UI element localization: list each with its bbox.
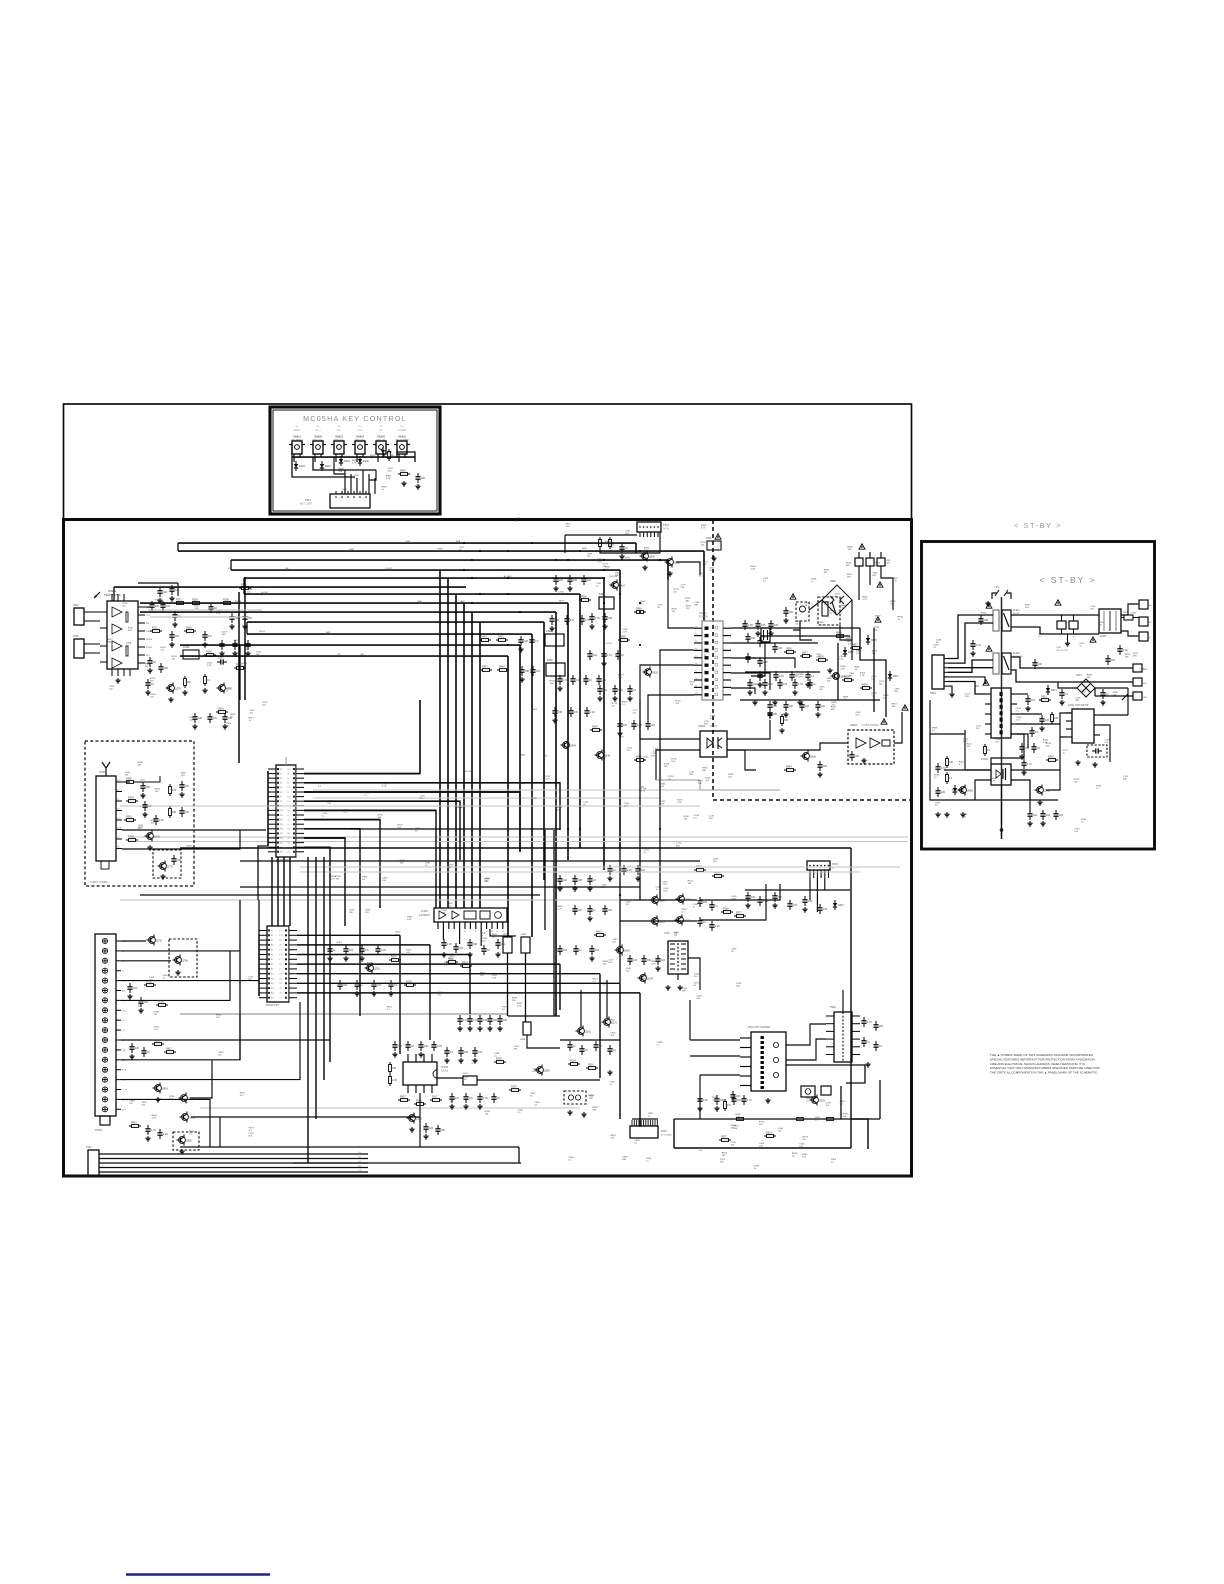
ground [1094,762,1096,764]
svg-text:100: 100 [144,1001,149,1004]
wire tc bus [600,549,660,553]
SIF module M202 [546,663,565,676]
svg-text:10K: 10K [222,634,226,636]
resistor R275 [190,602,193,604]
wire switch drop [398,457,400,462]
ground [177,970,179,972]
svg-text:103: 103 [825,1105,829,1107]
svg-text:10K: 10K [484,881,488,883]
svg-text:33K: 33K [349,912,353,914]
ground [345,956,347,958]
ground [770,631,772,633]
svg-text:GND: GND [417,601,422,603]
resistor R266 [509,1089,512,1091]
tuner IC TU801 [96,776,116,861]
warning mark [1090,637,1096,642]
capacitor C303 [819,904,821,908]
svg-text:C392: C392 [1056,647,1062,649]
tuner pin 5 [116,819,122,821]
feedback resistor bars [126,612,128,622]
wire fb v2 [677,974,679,980]
svg-text:220: 220 [177,859,182,862]
svg-text:1K: 1K [370,458,373,460]
svg-text:10K: 10K [848,549,852,551]
svg-text:P3: P3 [280,778,282,780]
diode D305 [834,900,836,903]
pin stub right 2 [138,622,145,624]
resistor R291 [221,602,224,604]
svg-text:103: 103 [774,624,779,627]
ground [117,678,119,680]
svg-text:2.2K: 2.2K [965,696,970,698]
svg-text:100: 100 [1033,814,1038,817]
strip B pin 1 [259,930,267,932]
focus block box2 [821,1086,831,1095]
svg-text:0.1: 0.1 [518,1112,522,1114]
svg-text:Q161: Q161 [585,1031,592,1034]
IC301 pin 4 [453,922,455,929]
connector P402 bottom left [88,1150,99,1176]
capacitor C251 [699,917,701,921]
transistor Q166 [604,1019,611,1026]
capacitor C956 [489,1015,491,1019]
transistor Q745 [149,937,156,944]
pin stub bottom 1 [117,669,119,676]
ground [479,1026,481,1028]
svg-text:P6: P6 [695,663,697,665]
svg-text:2.2K: 2.2K [662,884,667,886]
svg-text:BLU: BLU [1143,683,1148,685]
transistor Q618 [645,669,652,676]
ground [609,1070,611,1072]
ground [129,994,131,996]
svg-text:1u: 1u [603,985,606,987]
wire t801 secondary1 [1017,693,1028,695]
svg-text:4.7K: 4.7K [585,619,590,622]
svg-text:10K: 10K [819,689,823,691]
tuner pin 8 [116,848,122,850]
svg-text:LA78040: LA78040 [419,913,430,917]
P404 pin 4 [640,1120,642,1126]
wire gray rail 6 [180,1013,508,1015]
wire amp top rail drop [113,587,115,601]
svg-text:102: 102 [1031,699,1036,702]
wire PL801 net h [121,1002,300,1080]
svg-text:102: 102 [1139,671,1143,673]
wire opto left2 [656,750,700,780]
resistor R426 [1051,712,1053,715]
bridge rectifier D810 [822,585,852,615]
warning mark [983,680,989,685]
PL801 pin 9 [102,1018,107,1023]
svg-text:10K: 10K [952,792,956,794]
capacitor C940 [459,1015,461,1019]
svg-text:GND: GND [349,549,354,551]
svg-text:10K: 10K [773,705,778,708]
wire bus v x480 [479,622,481,908]
ground [144,812,146,814]
wire stripA left bus [267,771,269,846]
wire bottom h5 [220,1116,420,1118]
transistor Q813 [155,1085,162,1092]
capacitor C339 [149,657,151,661]
svg-text:1K: 1K [593,879,596,882]
wire PL801 net a [121,940,146,942]
svg-text:47u: 47u [218,1054,222,1056]
svg-text:0.1: 0.1 [634,1143,638,1145]
svg-text:0.1: 0.1 [1039,636,1043,638]
svg-text:1u: 1u [867,1041,870,1044]
ground [785,712,787,714]
svg-text:Q654: Q654 [570,745,577,748]
resistor R271 [404,984,407,986]
resistor R418 [479,639,482,641]
capacitor C880 [159,1129,161,1133]
resistor R213 [586,1067,589,1069]
svg-text:8: 8 [475,931,476,933]
capacitor C936 [1042,810,1044,814]
svg-text:R678: R678 [128,796,134,799]
capacitor C354 [623,865,625,869]
IC301 pin 13 [502,922,504,929]
capacitor C434 [1031,727,1033,731]
svg-text:10K: 10K [703,901,708,904]
ground [679,985,681,987]
resistor R805 [152,1043,155,1045]
svg-text:R932: R932 [521,934,527,936]
ground [621,554,623,556]
capacitor C981 [433,1041,435,1045]
ground [554,718,556,720]
ground [583,1112,585,1114]
wire ladder mid [313,457,376,470]
svg-text:220: 220 [1111,659,1116,662]
svg-text:SDA: SDA [456,540,461,543]
capacitor C226 [451,1093,453,1097]
ground [629,696,631,698]
capacitor C475 [555,575,557,579]
capacitor C406 [1061,689,1063,693]
wire tuner out1 [122,781,130,783]
svg-text:10K: 10K [140,782,144,784]
strip A pin 7 [268,796,276,798]
wire ic801 r1 [1100,714,1128,716]
capacitor C511 [598,675,600,679]
capacitor C571 [769,701,771,705]
connector CN851 [1139,600,1148,609]
svg-text:102: 102 [587,579,592,582]
ground [657,966,659,968]
svg-text:220: 220 [279,964,282,966]
resistor R349 [204,654,207,656]
P404 pin 2 [636,1120,638,1126]
svg-text:B1: B1 [271,930,273,932]
svg-text:100: 100 [279,998,282,1000]
svg-text:102: 102 [713,861,717,863]
resistor R724 [126,839,129,841]
svg-text:102: 102 [279,993,282,995]
svg-text:R298: R298 [223,598,229,601]
PL801 pin 15 [102,1077,107,1082]
svg-text:< ST-BY >: < ST-BY > [1039,575,1096,585]
resistor R689 [124,819,127,821]
svg-text:1K: 1K [151,683,154,686]
wire switch drop [377,457,379,462]
ground [637,876,639,878]
svg-text:2.2K: 2.2K [751,569,756,571]
svg-text:5V: 5V [338,426,341,428]
svg-text:220: 220 [627,750,631,752]
capacitor C483 [699,1095,701,1099]
svg-text:33K: 33K [949,761,954,764]
transistor Q629 [597,752,604,759]
ground [759,682,761,684]
diode D594 [844,647,846,650]
svg-text:Q819: Q819 [162,1088,169,1091]
wire cr net1 [580,990,582,1027]
svg-text:R270: R270 [391,955,397,958]
wire bus h y645 [180,644,520,646]
ground [474,1058,476,1060]
svg-text:1K: 1K [612,705,615,707]
capacitor C171 [569,1041,571,1045]
svg-text:100: 100 [163,591,168,594]
ground [804,907,806,909]
wire bus h y578 [244,577,604,579]
capacitor C652 [819,761,821,765]
svg-text:R589: R589 [620,635,626,638]
capacitor C964 [499,1015,501,1019]
svg-text:10K: 10K [550,683,554,685]
wire p902 top [842,990,844,1012]
svg-text:4.7K: 4.7K [279,954,283,956]
ground [1039,800,1041,802]
strip B pin 8 [259,963,267,965]
wire long v x324 [323,857,325,1080]
resistor R444 [946,772,948,775]
wire left v8 [258,900,260,934]
wire bus h y551 [178,550,704,552]
resistor R413 [594,934,597,936]
svg-text:AC: AC [1149,604,1152,607]
svg-text:103: 103 [823,908,828,911]
resistor R307 [150,630,153,632]
T801 left pin 3 [985,723,991,725]
wire loop bottom [674,1147,851,1149]
ground [774,903,776,905]
wire bus left col [246,622,248,634]
capacitor C223 [460,1047,462,1051]
capacitor C225 [345,945,347,949]
ground [829,668,831,670]
switch mark [1122,694,1128,700]
wire strip A long net2 [304,783,560,830]
wire ladder right [397,452,415,462]
svg-text:102: 102 [879,684,883,686]
wire strip B net y935 [297,934,400,936]
svg-text:AFC: AFC [461,600,466,603]
svg-text:1K: 1K [585,1049,588,1052]
capacitor C180 [581,1045,583,1049]
wire sb extra5 [929,700,931,760]
svg-text:10K: 10K [407,919,411,921]
svg-text:B10: B10 [271,974,274,976]
ground [181,792,183,794]
wire tc bus2 [659,532,661,553]
capacitor C966 [231,613,233,617]
svg-text:103: 103 [841,608,845,610]
resistor R305 [984,744,986,747]
svg-text:Q752: Q752 [156,940,163,943]
svg-text:2.2K: 2.2K [677,802,682,804]
IC302 bottom pin 3 [431,1085,433,1093]
svg-text:33K: 33K [279,940,283,942]
ground [817,712,819,714]
svg-text:220: 220 [343,984,348,987]
svg-text:Q766: Q766 [182,960,189,963]
capacitor C964 [1119,645,1121,649]
svg-text:D403: D403 [1076,675,1082,677]
tuner antenna mark [102,762,106,776]
svg-text:33K: 33K [846,565,850,567]
wire bridge left [1058,682,1077,688]
wire bottom bus [674,1118,880,1120]
svg-text:220: 220 [1054,717,1059,720]
IC302 bottom pin 1 [415,1085,417,1093]
svg-text:47u: 47u [226,725,230,727]
wire stby ic right [894,712,902,743]
T801 right pin 4 [1011,733,1017,735]
svg-text:100: 100 [1087,677,1091,679]
wire ta r3 [731,658,795,668]
connector PL801 main input [95,934,116,1116]
ground [234,651,236,653]
svg-text:10K: 10K [684,819,688,821]
pin stub top 0 [111,594,113,601]
IC801 right pin 0 [1094,714,1100,716]
resistor R510 [764,1135,767,1137]
capacitor C896 [483,945,485,949]
wire v out2 [525,953,527,1022]
bridge rectifier D851 [1077,679,1095,697]
ground [411,1127,413,1129]
connector CN803 sq3 [877,558,885,566]
svg-text:1u: 1u [898,619,901,621]
ground [699,1106,701,1108]
capacitor C255 [390,980,392,984]
IC301 pin 5 [459,922,461,929]
svg-text:1u: 1u [333,949,336,952]
svg-text:103: 103 [251,644,256,647]
P802 pin 5 [944,676,948,678]
wire dip out2 [477,1079,600,1081]
svg-text:100: 100 [1016,719,1020,721]
svg-text:R519: R519 [766,1131,772,1134]
wire p802 net3 [948,667,993,669]
svg-text:103: 103 [661,959,666,962]
capacitor C548 [614,685,616,689]
wire crt right1 [786,1065,865,1083]
capacitor C615 [851,751,853,755]
ground [497,952,499,954]
svg-text:0.1: 0.1 [807,1101,811,1103]
strip A pin 2 [268,773,276,775]
svg-text:1K: 1K [935,805,938,807]
capacitor C565 [809,679,811,683]
capacitor C555 [619,720,621,724]
X-capacitor CX801 [1057,621,1066,629]
capacitor C579 [785,701,787,705]
wire bridge down [1127,688,1129,698]
ground [140,1008,142,1010]
svg-text:1u: 1u [657,1044,660,1046]
svg-text:MC05HA KEY CONTROL: MC05HA KEY CONTROL [303,414,407,423]
svg-text:1u: 1u [704,654,707,656]
pin stub bottom 2 [123,669,125,676]
wire strip B drop2 [429,945,431,1040]
svg-text:0.1: 0.1 [811,675,815,678]
capacitor C218 [159,587,161,591]
svg-text:47u: 47u [208,635,213,638]
svg-text:2.2K: 2.2K [991,781,996,783]
P802 pin 2 [944,662,948,664]
wire tr h4 [793,621,800,630]
resistor R262 [721,911,724,913]
svg-text:4.7K: 4.7K [862,599,867,601]
resistor R441 [497,669,500,671]
capacitor C218 [329,945,331,949]
svg-text:9V: 9V [122,1020,125,1022]
capacitor C291 [774,892,776,896]
svg-text:Q291: Q291 [374,968,381,971]
svg-text:33K: 33K [473,943,478,946]
svg-text:10K: 10K [603,964,607,966]
wire bus v x704 [703,551,705,621]
svg-text:220: 220 [941,791,946,794]
capacitor C358 [217,661,221,663]
wire long v x308 [307,857,309,1163]
svg-text:33K: 33K [146,786,151,789]
ground [469,952,471,954]
wire bus left drop2 [230,560,232,570]
svg-text:103: 103 [675,703,679,705]
warning mark [986,646,992,651]
svg-text:220: 220 [421,477,426,480]
svg-text:10K: 10K [248,1136,252,1138]
T801 right pin 2 [1011,713,1017,715]
capacitor C552 [629,685,631,689]
resistor R949 [1039,699,1042,701]
svg-text:0.1: 0.1 [534,1105,538,1107]
connector P801 KEY [330,494,370,508]
diode D221 [359,456,361,459]
svg-text:0.1: 0.1 [694,818,698,820]
warning mark [902,705,908,710]
capacitor C547 [774,643,776,647]
transistor Q452 [960,787,967,794]
capacitor C588 [801,701,803,705]
svg-text:33K: 33K [138,765,142,767]
svg-text:10K: 10K [736,1095,741,1098]
svg-text:47u: 47u [570,619,575,622]
wire bridge right [1095,687,1128,689]
svg-text:100: 100 [135,1047,140,1050]
svg-text:10K: 10K [400,862,404,864]
capacitor C893 [455,943,457,947]
svg-text:102: 102 [187,681,192,684]
resistor R556 [784,651,787,653]
resistor R621 [781,714,783,717]
